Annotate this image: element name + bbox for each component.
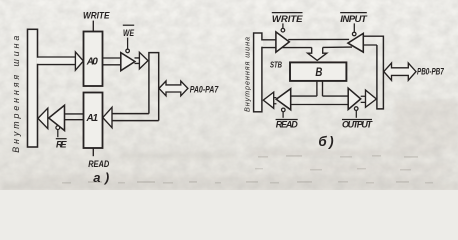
svg-text:PB0-PB7: PB0-PB7 [417, 66, 444, 77]
svg-text:READ: READ [276, 120, 299, 130]
buffer READ (triangle, points left) [276, 89, 291, 110]
wire: WRITE stem [282, 23, 284, 28]
hollow down-arrow into register B [308, 48, 327, 61]
internal bus bar (fig b) [254, 33, 262, 112]
label WRITE with overline (fig b) [272, 13, 303, 25]
wire: WE buffer output arrow into right duct [135, 52, 149, 69]
arrowhead into A1 (right side) [103, 107, 112, 127]
wire: bus to A0 (hollow arm with open arrowhead) [37, 52, 84, 70]
svg-text:б): б) [318, 134, 334, 149]
inversion bubble INPUT [352, 32, 356, 36]
svg-text:OUTPUT: OUTPUT [342, 120, 374, 130]
wire: RE stem [57, 130, 59, 138]
svg-text:A0: A0 [86, 57, 98, 68]
svg-text:WE: WE [123, 28, 135, 38]
buffer OUTPUT (triangle, points right) [348, 88, 361, 109]
register B [290, 62, 346, 81]
wire: RE output arrowhead into bus [38, 108, 48, 128]
wire: bus bar opening cover (fig b) [261, 41, 263, 47]
wire: top rail lower line (bus to right duct) [262, 45, 377, 48]
wire: WRITE stem into A0 [92, 21, 94, 32]
svg-text:A1: A1 [86, 113, 99, 124]
label OUTPUT with overline [342, 120, 374, 130]
wire: READ output arrowhead into bus [274, 98, 277, 104]
wire: READ stem from A1 [92, 149, 94, 157]
svg-text:PA0-PA7: PA0-PA7 [190, 84, 219, 94]
wire: WE stem [127, 38, 129, 50]
wire: READ stem [282, 112, 284, 118]
inversion bubble OUTPUT [354, 107, 358, 111]
bottom rail (hollow) [291, 96, 349, 104]
register A0 [84, 32, 103, 87]
bus label "Внутренняя шина" (fig a) [11, 36, 21, 153]
inversion bubble RE [56, 126, 60, 130]
svg-text:RE: RE [56, 139, 67, 149]
label WRITE (fig a) [83, 11, 110, 22]
right port duct (fig b) [363, 36, 383, 109]
svg-text:READ: READ [88, 158, 109, 169]
inversion bubble READ [282, 108, 286, 112]
buffer RE (triangle, points left) [49, 105, 65, 130]
wire: A1 to RE buffer (double line) [65, 114, 84, 120]
svg-text:INPUT: INPUT [340, 14, 368, 25]
buffer WE (triangle) [121, 53, 135, 71]
svg-text:WRITE: WRITE [83, 11, 110, 22]
inversion bubble WRITE [281, 28, 285, 32]
internal bus bar (fig a) [28, 29, 38, 147]
buffer WRITE (triangle) [276, 32, 289, 52]
label INPUT with overline [340, 13, 368, 25]
svg-text:WRITE: WRITE [272, 14, 303, 25]
label WE with overline [123, 25, 135, 38]
wire: OUTPUT stem [355, 111, 357, 118]
svg-text:В: В [315, 65, 322, 79]
bidirectional arrow PB0-PB7 [384, 63, 416, 80]
wire: register B to bottom rail (double line) [317, 81, 323, 96]
svg-text:Внутренняя шина: Внутренняя шина [11, 36, 21, 153]
wire: OUTPUT arrowhead into right duct [361, 96, 366, 102]
wire: top rail upper line segments [262, 38, 349, 40]
svg-text:Внутренняя шина: Внутренняя шина [243, 37, 252, 112]
register A1 [84, 93, 103, 149]
wire: A0 to WE buffer (double line) [103, 58, 121, 65]
svg-text:STB: STB [270, 61, 282, 70]
label READ with overline (fig b) [276, 120, 299, 130]
bidirectional arrow PA0-PA7 [159, 81, 188, 96]
right port duct (hollow L-shape, fig a) [112, 53, 159, 121]
inversion bubble WE [126, 49, 130, 53]
wire: INPUT stem [353, 23, 355, 32]
label RE with overline [56, 139, 68, 150]
buffer INPUT (triangle, points left) [348, 33, 363, 52]
